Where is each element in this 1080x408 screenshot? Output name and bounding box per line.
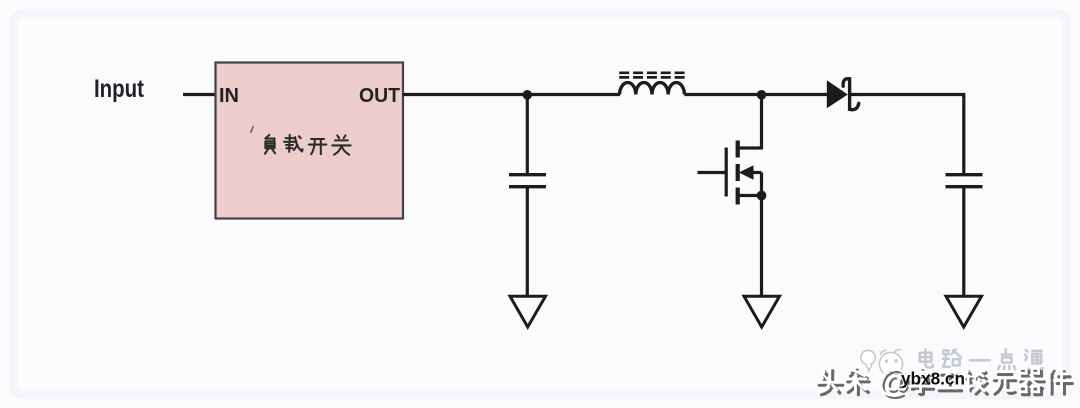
diode D1 schottky cathode bbox=[843, 79, 859, 110]
svg-text:ybx8.cn: ybx8.cn bbox=[901, 369, 965, 389]
transistor Q1 gate bar bbox=[725, 148, 728, 197]
wire OUT to inductor bbox=[403, 93, 620, 96]
transistor Q1 drain lead bbox=[738, 146, 762, 149]
watermark logo bubble bbox=[861, 350, 875, 371]
load switch U1 box bbox=[216, 63, 404, 219]
node B junction dot bbox=[757, 90, 767, 100]
watermark logo pig face bbox=[879, 350, 902, 376]
capacitor C2 plates bbox=[946, 175, 983, 187]
svg-text:IN: IN bbox=[219, 85, 239, 107]
ground 1 bbox=[510, 296, 546, 327]
transistor Q1 body arrow bbox=[749, 171, 762, 174]
svg-text:Input: Input bbox=[94, 75, 145, 103]
capacitor C1 plates bbox=[509, 175, 546, 187]
node A junction dot bbox=[523, 90, 533, 100]
watermark shadow 头条 bbox=[819, 370, 869, 395]
watermark white 头条 bbox=[816, 367, 866, 392]
diode D1 anode triangle bbox=[827, 80, 848, 108]
wire C2 to ground bbox=[962, 188, 965, 297]
wire node B down to Q1 drain bbox=[760, 95, 763, 150]
wire inductor to diode bbox=[684, 93, 827, 96]
svg-text:OUT: OUT bbox=[359, 85, 400, 107]
ground 2 bbox=[744, 296, 780, 327]
watermark text 电路一点通 bbox=[920, 349, 1044, 369]
wire node A down to C1 bbox=[526, 95, 529, 174]
wire C1 to ground bbox=[526, 188, 529, 297]
wire Q1 source to ground bbox=[760, 196, 763, 298]
source junction dot bbox=[757, 191, 767, 201]
inductor L1 winding bbox=[620, 83, 685, 95]
wire input to load switch bbox=[183, 93, 216, 96]
transistor Q1 source lead bbox=[738, 194, 762, 197]
transistor Q1 source link bbox=[760, 173, 763, 196]
ground 3 bbox=[946, 296, 982, 327]
small stray tick mark bbox=[251, 126, 254, 133]
transistor Q1 gate lead bbox=[698, 171, 727, 174]
watermark white 李工谈元器件 bbox=[909, 368, 1070, 392]
inductor L1 core dashes bbox=[619, 73, 684, 78]
watermark shadow 李工谈元器件 bbox=[912, 371, 1073, 395]
label 负载开关 (load switch) hand-drawn glyphs bbox=[265, 135, 351, 155]
wire diode to output corner bbox=[850, 95, 964, 174]
transistor Q1 channel segments bbox=[736, 141, 740, 205]
